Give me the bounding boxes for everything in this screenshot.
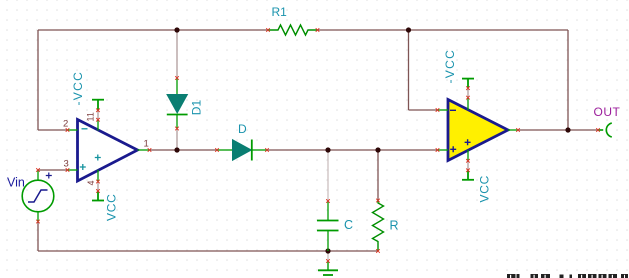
svg-text:4: 4 [86,180,96,185]
svg-text:D1: D1 [189,100,203,116]
wire C top branch (light) [327,150,329,201]
node junction mid C [325,147,330,152]
wire D1 top lead [176,30,178,78]
op-amp U2 minus input stub [438,109,449,111]
svg-text:VCC: VCC [105,194,119,221]
op-amp U2 [448,100,508,161]
wire bottom horizontal [38,250,378,252]
svg-text:Vin: Vin [7,176,25,190]
capacitor C [317,201,339,251]
op-amp U1 pin 2 stub [68,129,78,131]
svg-text:R1: R1 [272,5,288,19]
op-amp U1 [78,120,138,182]
svg-text:OUT: OUT [594,105,621,119]
op-amp U2 bottom power pin [467,150,469,170]
power symbol -VCC at U2 [462,79,474,89]
power symbol VCC at U2 [462,170,474,180]
node junction top U2 branch [406,27,411,32]
Vin polarity plus [46,173,52,179]
svg-text:11: 11 [85,112,95,121]
op-amp U2 output stub [508,129,518,131]
diode D [217,140,267,161]
svg-text:VCC: VCC [478,175,492,202]
op-amp U1 pin 4 power pin [97,170,99,191]
resistor R [373,201,384,252]
node junction mid D1 [174,147,179,152]
power symbol -VCC at U1 [92,100,104,111]
wire ground stub (light) [327,251,329,261]
op-amp U2 plus input stub [438,149,449,151]
wire feedback vertical right [567,30,569,130]
svg-text:D: D [238,122,247,136]
op-amp U1 pin 3 stub [68,169,78,171]
power symbol VCC at U1 [92,191,104,201]
wire top horizontal left (U1 pin2 node to R1) [38,29,268,31]
svg-text:-VCC: -VCC [443,49,457,84]
wire Vin minus down [37,222,39,252]
node junction OUT [565,127,570,132]
wire R top branch [377,150,379,201]
wire to U2 minus input [409,109,438,111]
port OUT [598,123,612,137]
node junction mid R [375,147,380,152]
diode D1 [167,78,188,129]
wire diode D to U2 plus input [267,149,438,151]
op-amp U2 top power pin [467,88,469,110]
clipped caption text bottom right [507,274,628,278]
wire top node down to U2 minus row [408,30,410,110]
pin connection markers [36,28,600,263]
svg-text:2: 2 [63,118,68,129]
resistor R1 [268,25,318,35]
op-amp U1 pin 11 power pin [97,110,99,130]
source Vin [22,170,54,222]
wire U2 output to OUT port [518,129,598,131]
svg-text:-VCC: -VCC [71,71,85,106]
svg-text:R: R [390,219,399,233]
wire pin2 horizontal [38,129,68,131]
svg-text:3: 3 [64,159,69,170]
wire Vin plus to pin3 [38,169,68,171]
svg-text:1: 1 [144,139,149,150]
ground [318,261,338,275]
wire U1 output to diode D [150,149,218,151]
op-amp U1 pin 1 output stub [138,149,150,151]
wire left vertical (top wire down to pin2 row) [37,30,39,130]
wire D1 bottom lead [176,129,178,151]
node junction bottom ground [325,248,330,253]
node junction top D1 [174,27,179,32]
wire top horizontal right (R1 to feedback corner) [318,29,569,31]
svg-text:C: C [344,218,353,232]
